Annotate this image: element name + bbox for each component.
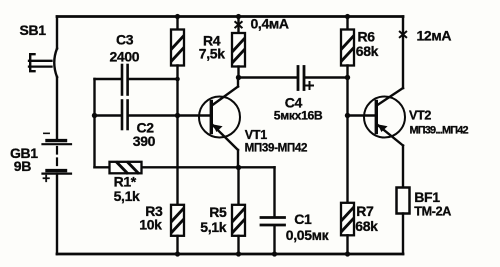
C2 left plate [121,101,124,130]
capacitor C3 [95,65,178,95]
wire from battery to bottom rail [56,174,58,254]
VT1 circle [199,97,240,138]
wire to bottom rail [273,226,275,254]
svg-text:68k: 68k [356,43,379,59]
wire right rail drop to VT2 collector [402,17,404,89]
svg-text:12мА: 12мА [417,27,452,43]
svg-text:–: – [43,125,51,140]
resistor R7 body [341,203,354,236]
svg-text:МП39...МП42: МП39...МП42 [410,124,469,136]
node left bus / C2 [92,113,97,118]
battery GB1 [43,141,72,254]
svg-text:МП39-МП42: МП39-МП42 [245,142,307,155]
svg-text:9В: 9В [14,158,31,174]
wire emitter feedback line R1 [95,166,275,168]
C3 left plate [121,65,124,95]
svg-text:5,1k: 5,1k [114,188,140,204]
C4 left plate [297,67,300,90]
node top rail / R6 [345,14,350,19]
wire with break [237,17,239,34]
VT1 base bar [210,102,213,133]
wire from switch to battery [56,77,58,139]
svg-text:C3: C3 [116,32,134,48]
switch bracket bar [30,54,34,71]
resistor R5 body [232,205,245,236]
resistor R3 [171,205,184,254]
wire [237,236,239,254]
capacitor C2 [95,101,211,130]
svg-text:10k: 10k [139,216,162,232]
VT2 emitter [378,125,404,188]
svg-text:BF1: BF1 [414,189,440,205]
current break mark x [235,22,241,28]
svg-text:0,4мА: 0,4мА [251,15,289,31]
node C4 / R6 / R7 [345,75,350,80]
wire to collector node [237,67,239,78]
node top rail / R4 [236,14,241,19]
wire from emitter node [237,168,239,205]
VT2 base bar [375,102,378,133]
svg-text:R1*: R1* [114,173,137,189]
wire [176,17,178,30]
svg-text:VT1: VT1 [245,128,267,142]
node bottom rail / C1 [272,251,277,256]
wire collector node to C4 [239,76,297,78]
C1 bottom plate [261,224,285,227]
wire top rail [57,15,403,18]
svg-text:R5: R5 [209,204,227,220]
wire to R6/R7 node [306,76,348,78]
node bottom rail / R3 [175,251,180,256]
node bottom rail / R5 [236,251,241,256]
C4 right plate [303,67,306,90]
wire [95,78,121,80]
BF1 body [397,188,410,214]
wire [346,235,348,254]
wire [95,114,121,116]
svg-text:SB1: SB1 [20,22,47,38]
C4 plus sign [306,82,313,89]
node collector VT1 / R4 / C4 [236,75,241,80]
node R2 chain / C3 [175,77,180,82]
wire [176,236,178,254]
VT2 circle [364,97,405,138]
transistor VT2 [348,32,407,188]
battery cell 2 short plate [47,169,66,172]
resistor R5 [232,168,245,255]
wire [346,17,348,30]
node VT2 base / R6R7 chain [345,113,350,118]
VT2 emitter arrow [378,124,388,132]
svg-text:0,05мк: 0,05мк [286,227,330,243]
wire to bottom rail [402,214,404,255]
wire to VT1 base [129,114,210,116]
C1 top plate [261,216,285,219]
resistor R2 body [171,30,184,66]
resistor R7 [341,203,354,254]
switch contact plate bottom [29,65,52,67]
resistor R2 chain (unlabeled) [171,17,184,205]
wire down through junctions [346,66,348,203]
wire base [348,114,376,116]
svg-text:2400: 2400 [110,49,140,65]
svg-text:7,5k: 7,5k [199,46,225,62]
svg-text:+: + [42,171,50,186]
svg-text:390: 390 [133,133,156,149]
wire down through junctions [176,66,178,205]
node top rail / R2 [175,14,180,19]
switch SB1 [29,17,57,140]
resistor R1 body [110,162,142,174]
node left vertical (C3/C2/R1 bus) [93,79,95,167]
wire from top rail to switch [56,17,58,49]
node R2 chain / C2 [175,113,180,118]
VT1 collector [212,78,238,106]
svg-text:VT2: VT2 [409,108,431,122]
battery cell 1 long plate [43,143,72,145]
svg-text:C1: C1 [294,211,312,227]
capacitor C4 [298,67,348,90]
C3 right plate [126,65,129,95]
svg-text:ТМ-2А: ТМ-2А [414,205,451,219]
wire from feedback line [273,167,275,216]
resistor R1 [110,162,142,174]
svg-text:5мкх16В: 5мкх16В [274,108,323,122]
wire [129,78,178,80]
headphone BF1 [397,188,410,255]
wire bottom rail [57,253,403,256]
resistor R3 body [171,205,184,236]
switch arm arc [54,49,57,78]
resistor R6 [341,17,354,203]
svg-text:5,1k: 5,1k [200,219,226,235]
resistor R6 body [341,30,354,66]
C2 right plate [126,101,129,130]
svg-text:68k: 68k [355,218,378,234]
node VT1 emitter / R1 / R5 / C1 [236,165,241,170]
resistor R4 body [232,33,245,67]
resistor R4 [232,17,245,78]
node bottom rail / R7 [345,251,350,256]
current break mark x on collector [400,32,406,38]
capacitor C1 [261,167,285,254]
switch contact plate top [29,60,52,62]
battery dashed middle [56,147,58,168]
VT2 collector [377,88,403,106]
VT1 emitter arrow [213,124,223,132]
transistor VT1 [199,78,240,168]
svg-text:R7: R7 [356,203,374,219]
battery cell 1 short plate [47,139,66,142]
VT1 emitter [213,125,239,168]
battery cell 2 long plate [43,173,72,175]
